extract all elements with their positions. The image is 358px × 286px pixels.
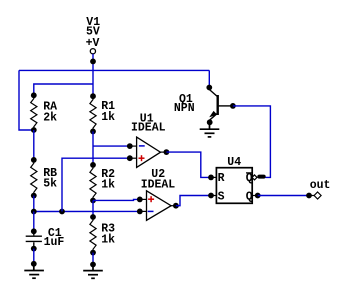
wire Qbar to Q1 base bbox=[233, 106, 271, 177]
U4 Qbar connector blob bbox=[257, 175, 265, 179]
node out dot bbox=[306, 193, 312, 199]
U2 input pin stubs bbox=[140, 198, 147, 200]
U4 R pin stub bbox=[211, 176, 216, 178]
node +V terminal circle bbox=[90, 49, 95, 54]
Q1 emitter arrow bbox=[209, 111, 217, 117]
resistor RB bbox=[31, 160, 37, 196]
node S pin dot bbox=[208, 193, 214, 199]
wire U1 plus feed vertical bbox=[62, 158, 130, 211]
node R pin dot bbox=[208, 175, 214, 181]
U2 output pin stub bbox=[171, 205, 176, 207]
out terminal stub bbox=[309, 195, 314, 197]
Q1 emitter lead bbox=[210, 113, 218, 122]
node Q pin dot bbox=[255, 193, 261, 199]
svg-text:IDEAL: IDEAL bbox=[141, 179, 176, 192]
U4 Qbar open diamond bbox=[252, 175, 257, 180]
ground under Q1 bbox=[200, 122, 220, 137]
wire U1 minus feed bbox=[93, 145, 130, 147]
svg-text:1uF: 1uF bbox=[44, 236, 65, 249]
wire R3 bottom to ground bbox=[92, 253, 94, 265]
U2 plus sign bbox=[148, 196, 154, 202]
transistor Q1 bbox=[206, 85, 212, 91]
resistor R3 bbox=[90, 217, 96, 253]
Q1 collector lead bbox=[210, 90, 218, 97]
svg-text:NPN: NPN bbox=[174, 102, 195, 115]
latch U4 bbox=[216, 168, 252, 204]
wire U2 out to S input bbox=[176, 196, 211, 206]
wire Q to out bbox=[258, 195, 309, 197]
node C1 ground dot bbox=[31, 261, 37, 267]
node rail mid junction bbox=[59, 209, 65, 215]
wire R1 bottom to R2 top bbox=[92, 131, 94, 165]
wire left drop to RA bottom bbox=[19, 70, 34, 130]
resistor RA bbox=[31, 95, 37, 130]
wire rail to C1 top bbox=[33, 212, 35, 232]
svg-text:Q: Q bbox=[246, 172, 253, 185]
node R3 ground dot bbox=[90, 262, 96, 268]
node Q1 emitter dot bbox=[207, 119, 213, 125]
svg-text:2k: 2k bbox=[43, 111, 57, 124]
U1 plus sign bbox=[139, 155, 145, 161]
svg-text:IDEAL: IDEAL bbox=[131, 122, 166, 135]
resistor R1 bbox=[90, 96, 96, 131]
svg-text:Q: Q bbox=[246, 190, 253, 203]
node U1 pin dots bbox=[127, 143, 133, 149]
wire +V vertical to R1 top bbox=[92, 54, 94, 96]
svg-text:R: R bbox=[218, 172, 225, 185]
wire CAP rail to U2 minus bbox=[34, 210, 140, 212]
ground under C1 bbox=[24, 264, 44, 278]
op-amp U2 bbox=[147, 191, 172, 221]
Q1 base lead bbox=[219, 105, 233, 107]
wire RB bottom to rail bbox=[33, 196, 35, 212]
node Q1 base dot bbox=[230, 103, 236, 109]
svg-text:U4: U4 bbox=[227, 156, 241, 169]
wire R2 bottom to R3 top bbox=[92, 201, 94, 218]
svg-text:1k: 1k bbox=[101, 111, 115, 124]
wire top rail DIS node to Q1 collector bbox=[19, 69, 209, 71]
capacitor C1 bbox=[26, 231, 42, 248]
U2 minus sign bbox=[148, 210, 154, 212]
U1 minus sign bbox=[139, 145, 145, 147]
svg-text:S: S bbox=[218, 190, 225, 203]
node rail left junction bbox=[31, 209, 37, 215]
wire C1 bottom to ground bbox=[33, 249, 35, 264]
wire RA bottom to RB top bbox=[33, 130, 35, 160]
op-amp U1 bbox=[137, 137, 161, 167]
Q1 base bar bbox=[216, 95, 218, 115]
svg-text:1k: 1k bbox=[101, 179, 115, 192]
out terminal diamond bbox=[314, 192, 321, 199]
node junction dot below +V bbox=[90, 59, 96, 65]
svg-text:5k: 5k bbox=[43, 178, 57, 191]
ground under R3 bbox=[83, 265, 103, 279]
wire +V branch to RA top bbox=[34, 84, 93, 95]
wire drop to Q1 collector bbox=[208, 70, 210, 87]
wire U1 out to R input bbox=[166, 152, 211, 177]
node U2 pin dots bbox=[137, 197, 143, 203]
resistor R2 bbox=[90, 165, 96, 201]
svg-text:1k: 1k bbox=[101, 234, 115, 247]
U1 input pin stubs bbox=[130, 145, 137, 147]
U4 S pin stub bbox=[211, 195, 216, 197]
U4 Q pin stub bbox=[252, 195, 258, 197]
wire R2-R3 node to U2 plus bbox=[93, 199, 140, 200]
svg-text:out: out bbox=[310, 179, 331, 192]
svg-text:+V: +V bbox=[86, 37, 100, 50]
U1 output pin stub bbox=[161, 151, 167, 153]
